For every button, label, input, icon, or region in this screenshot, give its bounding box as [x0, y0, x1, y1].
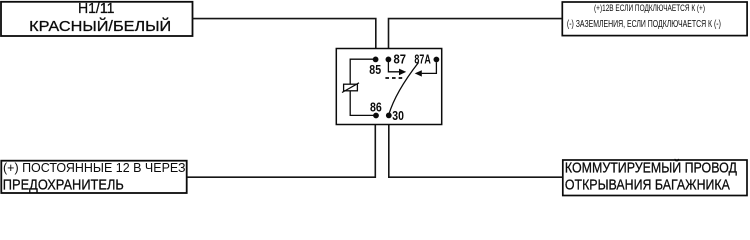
- relay coil lead (85 side): [350, 59, 375, 84]
- wire: H1/11 box to relay pin 85: [193, 19, 376, 60]
- svg-text:30: 30: [392, 108, 404, 123]
- annotation box: H1/11 КРАСНЫЙ/БЕЛЫЙ: [1, 0, 193, 36]
- svg-text:ПРЕДОХРАНИТЕЛЬ: ПРЕДОХРАНИТЕЛЬ: [3, 177, 124, 194]
- pin 87: [386, 57, 392, 63]
- NC contact lead from 87A with arrow: [415, 62, 437, 76]
- svg-text:86: 86: [370, 99, 382, 114]
- pin 87A label: [414, 52, 430, 67]
- svg-text:ОТКРЫВАНИЯ БАГАЖНИКА: ОТКРЫВАНИЯ БАГАЖНИКА: [565, 176, 730, 193]
- svg-text:(+)12В ЕСЛИ ПОДКЛЮЧАЕТСЯ К (+): (+)12В ЕСЛИ ПОДКЛЮЧАЕТСЯ К (+): [594, 3, 705, 14]
- relay armature (common 30): [389, 63, 419, 115]
- NO contact lead from 87 with arrow: [388, 62, 406, 75]
- annotation box: (+)12В ЕСЛИ ПОДКЛЮЧАЕТСЯ К (+) / (-) ЗАЗЕМЛЕНИЯ: [562, 2, 747, 36]
- svg-text:85: 85: [369, 62, 381, 77]
- wire: relay pin 30 to trunk-release box: [389, 116, 563, 178]
- pin 86 label: [370, 99, 382, 114]
- svg-text:(+) ПОСТОЯННЫЕ 12 В ЧЕРЕЗ: (+) ПОСТОЯННЫЕ 12 В ЧЕРЕЗ: [3, 161, 186, 175]
- wire: fused +12V box to relay pin 86: [187, 116, 375, 178]
- pin 85 label: [369, 62, 381, 77]
- svg-text:КРАСНЫЙ/БЕЛЫЙ: КРАСНЫЙ/БЕЛЫЙ: [29, 17, 171, 35]
- dashed travel mark under 87 arrow: [385, 77, 402, 79]
- relay coil lead (86 side): [350, 91, 376, 116]
- annotation box: (+) ПОСТОЯННЫЕ 12 В ЧЕРЕЗ ПРЕДОХРАНИТЕЛЬ: [1, 161, 186, 194]
- pin 30: [386, 113, 392, 119]
- relay K1 body: [336, 49, 441, 125]
- svg-text:87: 87: [394, 52, 407, 67]
- pin 87 label: [394, 52, 407, 67]
- annotation box: КОММУТИРУЕМЫЙ ПРОВОД ОТКРЫВАНИЯ БАГАЖНИКА: [563, 158, 747, 195]
- pin 87A: [434, 57, 440, 63]
- pin 85: [373, 57, 379, 63]
- svg-text:КОММУТИРУЕМЫЙ ПРОВОД: КОММУТИРУЕМЫЙ ПРОВОД: [565, 158, 737, 176]
- svg-text:(-) ЗАЗЕМЛЕНИЯ, ЕСЛИ ПОДКЛЮЧАЕ: (-) ЗАЗЕМЛЕНИЯ, ЕСЛИ ПОДКЛЮЧАЕТСЯ К (-): [567, 19, 721, 30]
- pin 30 label: [392, 108, 404, 123]
- relay coil: [342, 83, 359, 93]
- svg-text:Н1/11: Н1/11: [78, 0, 115, 17]
- wire: relay pin 87 to (+)12V box: [389, 19, 563, 60]
- pin 86: [373, 113, 379, 119]
